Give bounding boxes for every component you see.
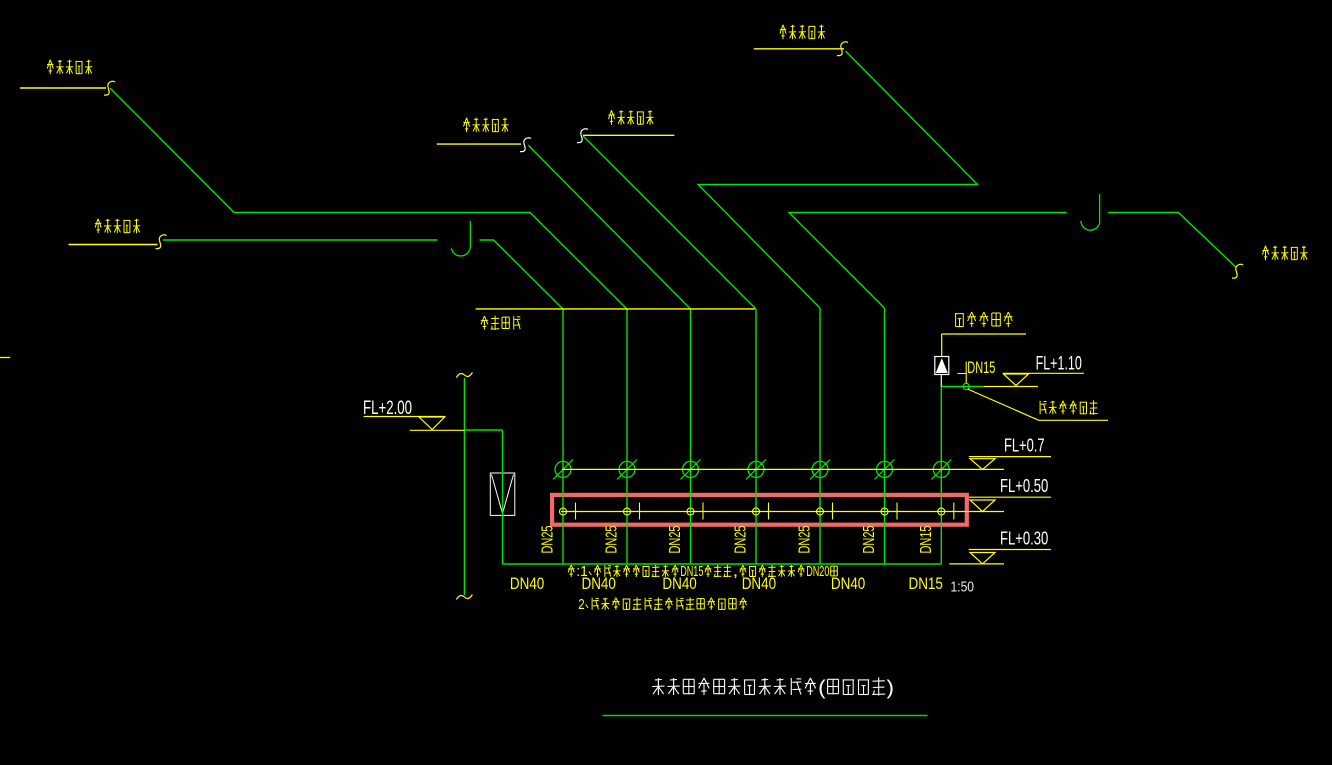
svg-text:FL+0.50: FL+0.50 [1000,476,1048,496]
svg-text:FL+0.7: FL+0.7 [1004,435,1045,455]
svg-text:FL+0.30: FL+0.30 [1000,528,1048,548]
svg-text::1: :1 [576,563,588,580]
svg-text:DN25: DN25 [733,525,750,553]
svg-text:DN25: DN25 [604,525,621,553]
svg-text:DN15: DN15 [918,525,935,553]
svg-text:DN40: DN40 [831,574,865,593]
svg-text:DN15: DN15 [909,574,943,593]
svg-text:1:50: 1:50 [951,580,975,596]
svg-text:FL+1.10: FL+1.10 [1036,354,1082,375]
svg-text:DN25: DN25 [540,525,557,553]
svg-text:DN25: DN25 [667,525,684,553]
svg-text:DN15: DN15 [680,563,703,580]
svg-text:DN25: DN25 [797,525,814,553]
svg-text:): ) [887,678,895,700]
svg-text:2: 2 [578,596,584,613]
svg-text:DN15: DN15 [967,358,995,377]
svg-text:DN20: DN20 [806,563,829,580]
svg-text:(: ( [818,678,826,700]
svg-text:,: , [733,563,739,580]
svg-text:DN25: DN25 [861,525,878,553]
svg-text:DN40: DN40 [510,574,544,593]
svg-text:FL+2.00: FL+2.00 [363,398,412,419]
